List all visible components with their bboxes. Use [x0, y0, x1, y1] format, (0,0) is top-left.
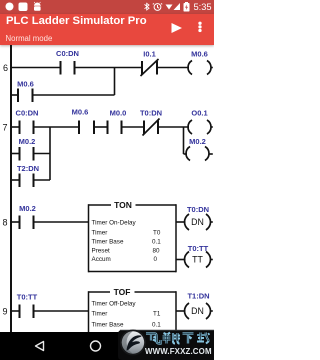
- status icon alarm clock: [153, 3, 162, 10]
- svg-text:T1:DN: T1:DN: [187, 292, 209, 301]
- svg-text:C0:DN: C0:DN: [56, 49, 79, 58]
- svg-text:Timer Off-Delay: Timer Off-Delay: [92, 301, 137, 308]
- svg-text:TOF: TOF: [114, 287, 131, 297]
- nav recents square (behind watermark): [148, 342, 157, 351]
- svg-text:Timer On-Delay: Timer On-Delay: [92, 220, 137, 227]
- contact T0:TT (rung 9): [20, 305, 34, 319]
- wire contact M0.2 to TON box: [34, 221, 89, 223]
- svg-text:0.1: 0.1: [152, 239, 161, 246]
- svg-text:T0: T0: [153, 230, 161, 237]
- contact C0:DN (rung 7): [20, 121, 34, 135]
- svg-text:M0.6: M0.6: [72, 108, 89, 117]
- overflow menu icon: [197, 20, 203, 34]
- left power rail: [10, 45, 12, 332]
- nav back triangle: [36, 342, 44, 351]
- rung 7 branch wire: rail to contact M0.2: [11, 153, 20, 155]
- status icon battery charging: [184, 3, 190, 12]
- rung 7 branch wire: rail to contact T2:DN: [11, 179, 20, 181]
- wire TOF box to coil T1:DN: [176, 310, 186, 312]
- coil T1:DN output (DN): [185, 303, 211, 319]
- svg-text:TT: TT: [192, 255, 203, 265]
- branch junction vertical (rung 7): [49, 127, 51, 180]
- wire contact T2:DN to junction: [34, 179, 51, 181]
- wire contact M0.2 to junction: [34, 153, 51, 155]
- coil T0:TT output (TT): [185, 252, 211, 268]
- svg-text:Timer Base: Timer Base: [92, 239, 124, 246]
- rung 6 branch wire: rail to contact M0.6: [11, 94, 18, 96]
- svg-text:I0.1: I0.1: [143, 50, 156, 59]
- wire contact M0.0 to contact T0:DN: [122, 126, 145, 128]
- svg-text:M0.2: M0.2: [189, 137, 206, 146]
- TON function block box U TON: [89, 204, 177, 272]
- rung 9 wire: rail to contact T0:TT: [11, 310, 20, 312]
- svg-text:5:35: 5:35: [194, 2, 212, 12]
- wire coil O0.1 to right edge: [211, 126, 213, 128]
- svg-text:M0.6: M0.6: [17, 80, 34, 89]
- contact M0.0 (rung 7): [108, 121, 122, 135]
- svg-text:Preset: Preset: [92, 248, 110, 255]
- wire TON box to coil T0:TT: [176, 259, 186, 261]
- svg-text:Timer: Timer: [92, 230, 108, 237]
- wire coil DN to right edge: [211, 221, 213, 223]
- wire coil M0.2 to right edge: [209, 153, 213, 155]
- wire contact C0:DN to contact M0.6: [34, 126, 80, 128]
- svg-text:DN: DN: [191, 217, 204, 227]
- watermark char 载: [197, 333, 210, 344]
- svg-text:M0.2: M0.2: [19, 137, 36, 146]
- svg-text:M0.6: M0.6: [191, 50, 208, 59]
- watermark 飞翔下载 logo: [118, 327, 214, 360]
- contact I0.1 normally closed (rung 6): [141, 59, 159, 76]
- watermark logo disc: [120, 330, 146, 356]
- wire contact T0:TT to TOF box: [34, 310, 89, 312]
- svg-text:8: 8: [3, 218, 8, 228]
- wire coil T1:DN to right edge: [211, 310, 213, 312]
- watermark plate: [118, 330, 214, 360]
- watermark char 飞: [146, 334, 161, 344]
- status icon rounded square: [19, 3, 28, 12]
- wire coil M0.6 to right edge: [211, 67, 213, 69]
- status icon android bug: [34, 2, 41, 11]
- contact T2:DN (rung 7 branch 2): [20, 174, 34, 188]
- svg-text:T2:DN: T2:DN: [17, 164, 39, 173]
- watermark logo F swoosh: [127, 335, 142, 350]
- wire contact M0.6 to branch junction: [33, 94, 115, 96]
- svg-text:DN: DN: [191, 306, 204, 316]
- rung 7 wire: rail to contact C0:DN: [11, 126, 20, 128]
- wire contact I0.1 to coil M0.6: [157, 67, 189, 69]
- wire contact M0.6 to contact M0.0: [94, 126, 108, 128]
- app bar: [0, 14, 214, 45]
- nav home circle: [91, 341, 101, 351]
- ladder diagram: [0, 45, 214, 332]
- svg-text:T0:DN: T0:DN: [140, 109, 162, 118]
- svg-text:M0.0: M0.0: [110, 109, 127, 118]
- rung 8 wire: rail to contact M0.2: [11, 221, 20, 223]
- coil O0.1 (rung 7): [188, 120, 211, 134]
- contact M0.2 (rung 7 branch 1): [20, 147, 34, 161]
- coil M0.2 (rung 7 output branch): [186, 147, 209, 161]
- wire junction to coil M0.2: [184, 153, 188, 155]
- svg-text:0: 0: [154, 256, 158, 263]
- status bar: [0, 0, 214, 14]
- svg-text:Accum: Accum: [92, 256, 111, 263]
- svg-text:WWW.FXXZ.COM: WWW.FXXZ.COM: [145, 347, 212, 356]
- rung 6 wire: rail to first contact: [11, 67, 61, 69]
- svg-text:T0:DN: T0:DN: [187, 205, 209, 214]
- wire coil TT to right edge: [211, 259, 213, 261]
- watermark char 下: [183, 334, 194, 344]
- svg-text:Timer: Timer: [92, 311, 108, 318]
- play (run) icon: [170, 21, 184, 35]
- status icon bluetooth: [145, 3, 150, 11]
- navigation bar: [0, 332, 214, 360]
- contact T0:DN normally closed (rung 7): [143, 119, 160, 136]
- svg-text:O0.1: O0.1: [191, 109, 207, 118]
- coil M0.6 (rung 6): [188, 61, 211, 75]
- contact C0:DN (rung 6): [61, 61, 75, 75]
- status icon cellular triangle: [174, 3, 181, 10]
- contact M0.2 (rung 8): [20, 216, 34, 230]
- svg-text:6: 6: [3, 63, 8, 73]
- TOF function block box U TOF: [89, 291, 177, 332]
- watermark char 翔: [163, 333, 181, 344]
- wire contact T0:DN to coil O0.1: [158, 126, 189, 128]
- svg-text:TON: TON: [114, 200, 132, 210]
- status icon circle: [6, 3, 14, 11]
- svg-text:C0:DN: C0:DN: [16, 109, 39, 118]
- status icon wifi triangle: [166, 5, 173, 10]
- svg-text:80: 80: [153, 248, 161, 255]
- wire contact C0:DN to contact I0.1: [75, 67, 143, 69]
- coil T0:DN output (DN): [185, 214, 211, 230]
- svg-text:M0.2: M0.2: [19, 204, 36, 213]
- branch junction vertical (rung 6): [114, 68, 116, 96]
- contact M0.6 (rung 7): [79, 121, 94, 135]
- wire TON box to coil T0:DN: [176, 221, 186, 223]
- svg-text:T1: T1: [153, 311, 161, 318]
- contact M0.6 (rung 6 branch): [18, 89, 33, 103]
- svg-text:T0:TT: T0:TT: [188, 244, 209, 253]
- svg-text:7: 7: [3, 123, 8, 133]
- svg-text:T0:TT: T0:TT: [17, 293, 38, 302]
- coil branch junction vertical (rung 7): [183, 127, 185, 154]
- svg-text:9: 9: [3, 307, 8, 317]
